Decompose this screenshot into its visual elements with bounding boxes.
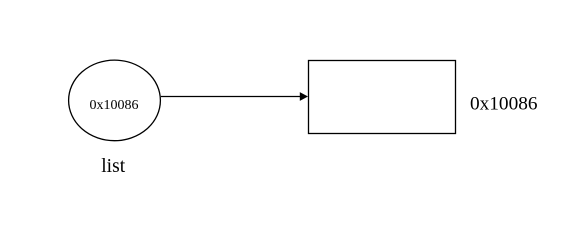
wire arrow shaft — [161, 96, 300, 98]
node list (ellipse) — [69, 60, 161, 141]
svg-text:0x10086: 0x10086 — [90, 98, 139, 113]
svg-text:0x10086: 0x10086 — [470, 93, 538, 114]
svg-text:list: list — [101, 156, 125, 177]
node box — [309, 61, 456, 134]
arrowhead — [300, 92, 308, 101]
